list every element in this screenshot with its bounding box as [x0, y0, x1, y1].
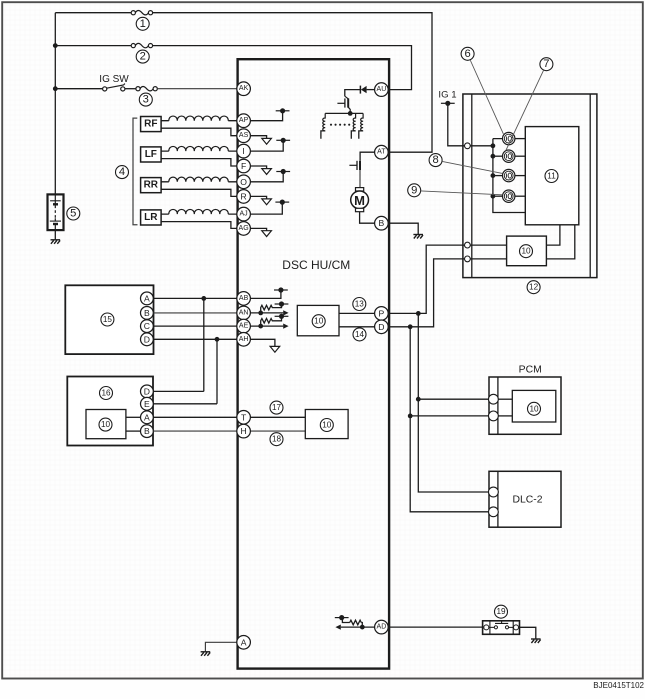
wire diode to FET1: [345, 90, 361, 97]
wire battery to ground: [54, 230, 56, 239]
svg-text:D: D: [378, 322, 384, 332]
supply stub AD supply: [335, 615, 349, 620]
pin DSC-O: [237, 175, 251, 189]
pin DSC-AD: [375, 620, 389, 634]
pin DSC-AT: [375, 145, 389, 159]
pin 15-A: [141, 292, 154, 305]
wire RF coil leads: [161, 120, 237, 122]
component box (16): [67, 377, 153, 446]
svg-text:B: B: [379, 218, 385, 228]
junction P drop junction: [416, 311, 421, 316]
wire S3 lead: [359, 131, 363, 139]
junction bus-IGSW junction: [53, 86, 58, 91]
leader 8: [442, 161, 502, 173]
svg-text:19: 19: [496, 607, 506, 616]
svg-text:D: D: [144, 334, 150, 344]
callout 10 mid: [312, 315, 325, 328]
motor M: [351, 188, 369, 212]
chassis ground switch ground: [531, 639, 541, 643]
wire S2 lead: [351, 131, 355, 139]
wire IG1 wire: [448, 103, 465, 146]
pin DSC-P: [375, 307, 389, 321]
supply stub IG1 source: [441, 101, 455, 106]
pin DSC-A: [237, 636, 251, 650]
svg-text:BJE0415T102: BJE0415T102: [593, 681, 644, 690]
svg-text:7: 7: [543, 58, 549, 70]
sensor coil RF: [169, 116, 229, 121]
pin DSC-AK: [237, 82, 251, 96]
PCM pin circle 1: [489, 394, 499, 404]
supply stub AE supply: [275, 314, 289, 319]
supply stub pullup y202.1: [275, 200, 289, 205]
wire AD external: [388, 626, 482, 628]
wire AE internal: [250, 325, 283, 327]
solenoid coil S3: [361, 113, 363, 130]
wire box10 to P: [339, 312, 375, 314]
assembly box (12): [463, 94, 597, 278]
svg-text:I: I: [242, 146, 244, 156]
svg-text:10: 10: [521, 247, 531, 256]
svg-text:B: B: [144, 426, 150, 436]
wire RR return wire: [161, 189, 237, 196]
wire D drop: [410, 327, 488, 512]
wire box10-12 to 11 a: [546, 225, 560, 245]
svg-text:AG: AG: [239, 225, 249, 232]
DSC HU/CM unit box: [238, 59, 390, 668]
pin DSC-H: [237, 424, 251, 438]
fuse F2: [131, 43, 152, 47]
wheel speed sensor LF: [141, 147, 162, 162]
ground arrow sensor y168.6: [262, 169, 272, 175]
rail connector r3: [465, 256, 471, 262]
svg-text:M: M: [354, 193, 365, 208]
wire DLC rail: [497, 471, 499, 527]
wire switch to ground: [520, 627, 536, 638]
junction solenoid feed node: [348, 111, 353, 116]
svg-text:A: A: [144, 412, 150, 422]
svg-text:RR: RR: [144, 180, 159, 191]
wire IG switch feed: [55, 88, 102, 90]
connector box (10) in 16: [86, 410, 126, 439]
callout 19: [495, 605, 508, 618]
pin DSC-R: [237, 190, 251, 204]
svg-text:DLC-2: DLC-2: [512, 495, 542, 506]
component box (15): [65, 285, 153, 354]
sensor coil LR: [169, 209, 229, 214]
wire box10-12 to 11 b: [546, 225, 574, 259]
callout 10 in16: [99, 418, 112, 431]
wire to PCM2: [410, 415, 488, 417]
wire 16A to T: [153, 416, 237, 418]
wire LF return wire: [161, 159, 237, 166]
pin 16-E: [141, 397, 154, 410]
wire A-net drop: [203, 298, 205, 391]
svg-text:18: 18: [272, 435, 282, 444]
svg-text:E: E: [144, 399, 150, 409]
callout 15: [101, 313, 114, 326]
wire coil2 left lead: [493, 155, 503, 157]
svg-text:DSC HU/CM: DSC HU/CM: [282, 258, 350, 272]
svg-text:B: B: [144, 308, 150, 318]
wire battery supply bus: [54, 13, 56, 195]
wire coil bus: [493, 139, 525, 213]
svg-text:R: R: [240, 191, 246, 201]
wire box12 left rail: [471, 94, 473, 278]
ellipsis dots: [330, 124, 350, 126]
svg-text:4: 4: [119, 166, 125, 178]
wire sensor ground wire y228.4: [250, 228, 266, 230]
leader 9: [421, 191, 503, 195]
svg-text:8: 8: [432, 154, 438, 166]
svg-text:12: 12: [529, 283, 539, 292]
connector box (10) mid: [297, 305, 339, 335]
ignition switch: [103, 84, 125, 91]
svg-text:14: 14: [355, 330, 365, 339]
wire 15C to AE: [153, 325, 237, 327]
diode D1: [360, 86, 366, 94]
wheel speed sensor RF: [141, 117, 162, 132]
svg-text:11: 11: [547, 172, 556, 181]
svg-text:AD: AD: [377, 624, 387, 631]
callout 1: [136, 17, 149, 30]
wire D-net drop: [216, 339, 218, 404]
pin 15-D: [141, 333, 154, 346]
arrow AE: [283, 324, 288, 329]
callout 8: [429, 154, 442, 167]
wire box10-16 to A: [126, 416, 141, 418]
junction bus c3 junction: [491, 173, 496, 178]
junction bus c2 junction: [491, 154, 496, 159]
junction bus ig junction: [491, 143, 496, 148]
fuse F3: [136, 87, 157, 91]
wire solenoid bus: [325, 112, 363, 114]
wire sensor ground wire y196.4: [250, 196, 266, 199]
wire Q2 to motor: [359, 170, 361, 188]
supply stub pullup y110.8: [276, 108, 290, 113]
svg-text:9: 9: [411, 184, 417, 196]
supply stub AN supply: [275, 301, 289, 306]
wheel speed sensor LR: [141, 210, 162, 225]
svg-text:AP: AP: [239, 117, 249, 124]
wire P drop: [418, 313, 488, 492]
wire rail to box10-12 a: [470, 244, 506, 246]
wire box10 to D: [339, 326, 375, 328]
callout 4: [116, 166, 129, 179]
wire fuse1 feed: [55, 12, 131, 14]
svg-text:15: 15: [103, 315, 113, 324]
pin 16-B: [141, 425, 154, 438]
wire RR coil leads: [161, 181, 237, 183]
wire AN internal: [250, 312, 283, 314]
wire PCM pin2 wire: [498, 415, 512, 417]
wire to PCM1: [418, 398, 488, 400]
wire AN pullup resistor: [261, 304, 282, 313]
callout 10 in12: [520, 245, 533, 258]
callout 9: [408, 184, 421, 197]
svg-text:A: A: [241, 637, 247, 647]
bracket (4): [133, 118, 138, 225]
svg-text:IG 1: IG 1: [438, 90, 456, 101]
svg-text:1: 1: [140, 18, 146, 30]
wire coil1 right lead: [515, 138, 525, 140]
callout 6: [461, 47, 474, 60]
callout 7: [540, 58, 553, 71]
sensor coil LF: [169, 146, 229, 151]
callout 11: [545, 170, 558, 183]
DLC pin circle 2: [489, 507, 499, 517]
wire PCM rail: [497, 377, 499, 434]
pin DSC-AN: [237, 306, 251, 320]
junction A-net junction: [201, 296, 206, 301]
chassis ground battery ground: [51, 240, 61, 244]
PCM box: [489, 377, 561, 434]
pin DSC-D: [375, 320, 389, 334]
valve connector circle 1: [503, 132, 515, 144]
connector box (10) at T/H: [305, 410, 348, 439]
svg-text:RF: RF: [144, 119, 157, 130]
svg-text:LF: LF: [145, 149, 157, 160]
wire switch to fuse3: [125, 88, 136, 90]
wire sensor pullup wire y181.8: [250, 172, 283, 182]
svg-text:IG SW: IG SW: [99, 74, 129, 85]
fuse F1: [131, 11, 152, 15]
wire AD pullup resistor: [342, 618, 362, 628]
junction D-net junction: [215, 337, 220, 342]
pin DSC-AE: [237, 319, 251, 333]
connector box (10) in 12: [507, 236, 547, 266]
wire coil3 right lead: [515, 175, 525, 177]
svg-text:16: 16: [101, 389, 111, 398]
wire T internal: [250, 416, 305, 418]
wire box10-16 to B: [126, 430, 141, 432]
wire coil3 left lead: [493, 175, 503, 177]
wire 16D wire: [153, 390, 204, 392]
svg-text:10: 10: [322, 421, 332, 430]
svg-text:AN: AN: [239, 309, 249, 316]
pin DSC-T: [237, 411, 251, 425]
wire H internal: [250, 430, 305, 432]
wire 16B to H: [153, 430, 237, 432]
wire AH internal: [250, 339, 275, 346]
rail connector r2: [465, 242, 471, 248]
svg-text:AK: AK: [239, 85, 249, 92]
wire coil2 right lead: [515, 155, 525, 157]
pin 15-B: [141, 307, 154, 320]
ground arrow AH: [270, 346, 280, 352]
svg-text:PCM: PCM: [519, 364, 542, 375]
svg-text:2: 2: [140, 51, 146, 63]
wire LR coil leads: [161, 213, 237, 215]
junction AN branch: [258, 311, 263, 316]
wire B to ground: [388, 223, 418, 234]
svg-text:AU: AU: [377, 86, 387, 93]
wire sensor pullup wire y151.1: [250, 140, 283, 151]
svg-text:P: P: [379, 308, 385, 318]
wire fuse3 to AK: [157, 88, 237, 90]
svg-text:3: 3: [143, 94, 149, 106]
pin DSC-B: [375, 216, 389, 230]
wire fuse2 feed: [55, 45, 131, 47]
junction bus-fuse2 junction: [53, 43, 58, 48]
wire 15B to AN: [153, 312, 237, 314]
wire S1 lead: [321, 131, 325, 139]
svg-text:AE: AE: [239, 323, 249, 330]
wire AE pullup resistor: [261, 316, 282, 326]
junction bus c4 junction: [491, 194, 496, 199]
ground arrow sensor y230.7: [262, 231, 272, 237]
wire AD internal: [341, 626, 375, 628]
wire D external: [388, 259, 464, 327]
pin DSC-F: [237, 159, 251, 173]
brake fluid level switch (19): [483, 621, 520, 635]
callout 12: [527, 281, 540, 294]
svg-text:C: C: [144, 321, 150, 331]
PCM pin circle 2: [489, 411, 499, 421]
arrow AN: [283, 310, 288, 315]
wire sensor pullup wire y214.1: [250, 202, 282, 214]
ground arrow sensor y198.9: [262, 199, 272, 205]
callout 18: [270, 433, 283, 446]
leader 6: [470, 60, 503, 134]
battery: [48, 194, 64, 230]
wire rail to coil bus: [470, 145, 493, 147]
wire P external: [388, 245, 464, 313]
wire box12 right rail: [589, 94, 591, 278]
svg-text:AH: AH: [239, 336, 249, 343]
callout 3: [139, 93, 152, 106]
svg-text:AS: AS: [239, 132, 249, 139]
wire LF coil leads: [161, 150, 237, 152]
chassis ground A ground: [201, 652, 211, 656]
transistor Q1: [337, 96, 350, 113]
DLC pin circle 1: [489, 487, 499, 497]
pin DSC-AH: [237, 333, 251, 347]
svg-text:LR: LR: [144, 212, 158, 223]
junction AE branch: [258, 324, 263, 329]
sensor coil RR: [169, 177, 229, 182]
callout 14: [353, 328, 366, 341]
inner box (11): [525, 127, 579, 225]
wire A ground wire: [205, 642, 237, 651]
svg-text:13: 13: [355, 300, 365, 309]
callout 17: [270, 401, 283, 414]
callout 10 PCM: [528, 402, 541, 415]
valve connector circle 3: [503, 169, 515, 181]
wire 15A to AB: [153, 297, 237, 299]
arrow AD: [335, 625, 340, 630]
svg-text:T: T: [241, 412, 247, 422]
solenoid coil S2: [353, 113, 355, 130]
wire AT internal wire: [360, 152, 375, 161]
wire sensor pullup wire y120.7: [250, 111, 282, 121]
wire AB internal: [250, 290, 281, 298]
transistor Q2: [349, 161, 360, 170]
solenoid coil S1: [323, 113, 325, 130]
svg-text:D: D: [144, 386, 150, 396]
svg-text:10: 10: [101, 420, 111, 429]
svg-text:6: 6: [464, 48, 470, 60]
pin DSC-AB: [237, 292, 251, 306]
pin DSC-AJ: [237, 207, 251, 221]
callout 13: [353, 298, 366, 311]
junction PCM2 junction: [408, 414, 413, 419]
svg-text:10: 10: [529, 404, 539, 413]
wheel speed sensor RR: [141, 178, 162, 193]
wire fuse2 to AU: [153, 46, 412, 90]
pin DSC-I: [237, 144, 251, 158]
wire AU internal wire: [367, 89, 375, 91]
svg-text:5: 5: [70, 208, 76, 220]
pin 16-A: [141, 411, 154, 424]
pin 15-C: [141, 320, 154, 333]
junction AD branch: [360, 625, 365, 630]
wire PCM pin1 wire: [498, 398, 512, 400]
wire sensor ground wire y135.7: [250, 136, 266, 139]
junction D drop junction: [408, 324, 413, 329]
leader 7: [506, 70, 544, 150]
svg-text:17: 17: [272, 403, 282, 412]
supply stub pullup y140.3: [276, 138, 290, 143]
wire 16E wire: [153, 403, 217, 405]
pin DSC-AG: [237, 222, 251, 236]
wire 15D to AH: [153, 338, 237, 340]
valve connector circle 2: [503, 150, 515, 162]
junction PCM1 junction: [416, 397, 421, 402]
pin DSC-AS: [237, 129, 251, 143]
callout 10 TH: [320, 419, 333, 432]
wire motor to B: [360, 212, 375, 224]
wire fuse1 to AT: [153, 13, 432, 153]
svg-text:H: H: [240, 426, 246, 436]
svg-text:10: 10: [314, 317, 324, 326]
wire RF return wire: [161, 128, 237, 136]
supply stub pullup y171.5: [276, 169, 290, 174]
pin DSC-AP: [237, 114, 251, 128]
valve connector circle 4: [503, 190, 515, 202]
callout 5: [67, 207, 80, 220]
svg-text:F: F: [241, 161, 246, 171]
svg-text:A: A: [144, 293, 150, 303]
supply stub AB supply: [274, 287, 288, 292]
svg-text:AB: AB: [239, 295, 249, 302]
wire LR return wire: [161, 222, 237, 229]
wire coil4 left lead: [493, 195, 503, 197]
ground arrow sensor y138.4: [262, 138, 272, 144]
chassis ground B ground: [413, 235, 423, 239]
svg-text:AT: AT: [377, 149, 386, 156]
pin 16-D: [141, 385, 154, 398]
wire coil4 right lead: [515, 195, 525, 197]
callout 16: [100, 387, 113, 400]
connector box (10) in PCM: [512, 390, 556, 422]
rail connector r1: [465, 143, 471, 149]
callout 2: [136, 50, 149, 63]
DLC-2 box: [489, 471, 561, 527]
wire rail to box10-12 b: [470, 258, 506, 260]
wire sensor ground wire y166.0: [250, 166, 266, 169]
svg-text:AJ: AJ: [240, 211, 248, 218]
svg-text:O: O: [240, 177, 247, 187]
pin DSC-AU: [375, 83, 389, 97]
